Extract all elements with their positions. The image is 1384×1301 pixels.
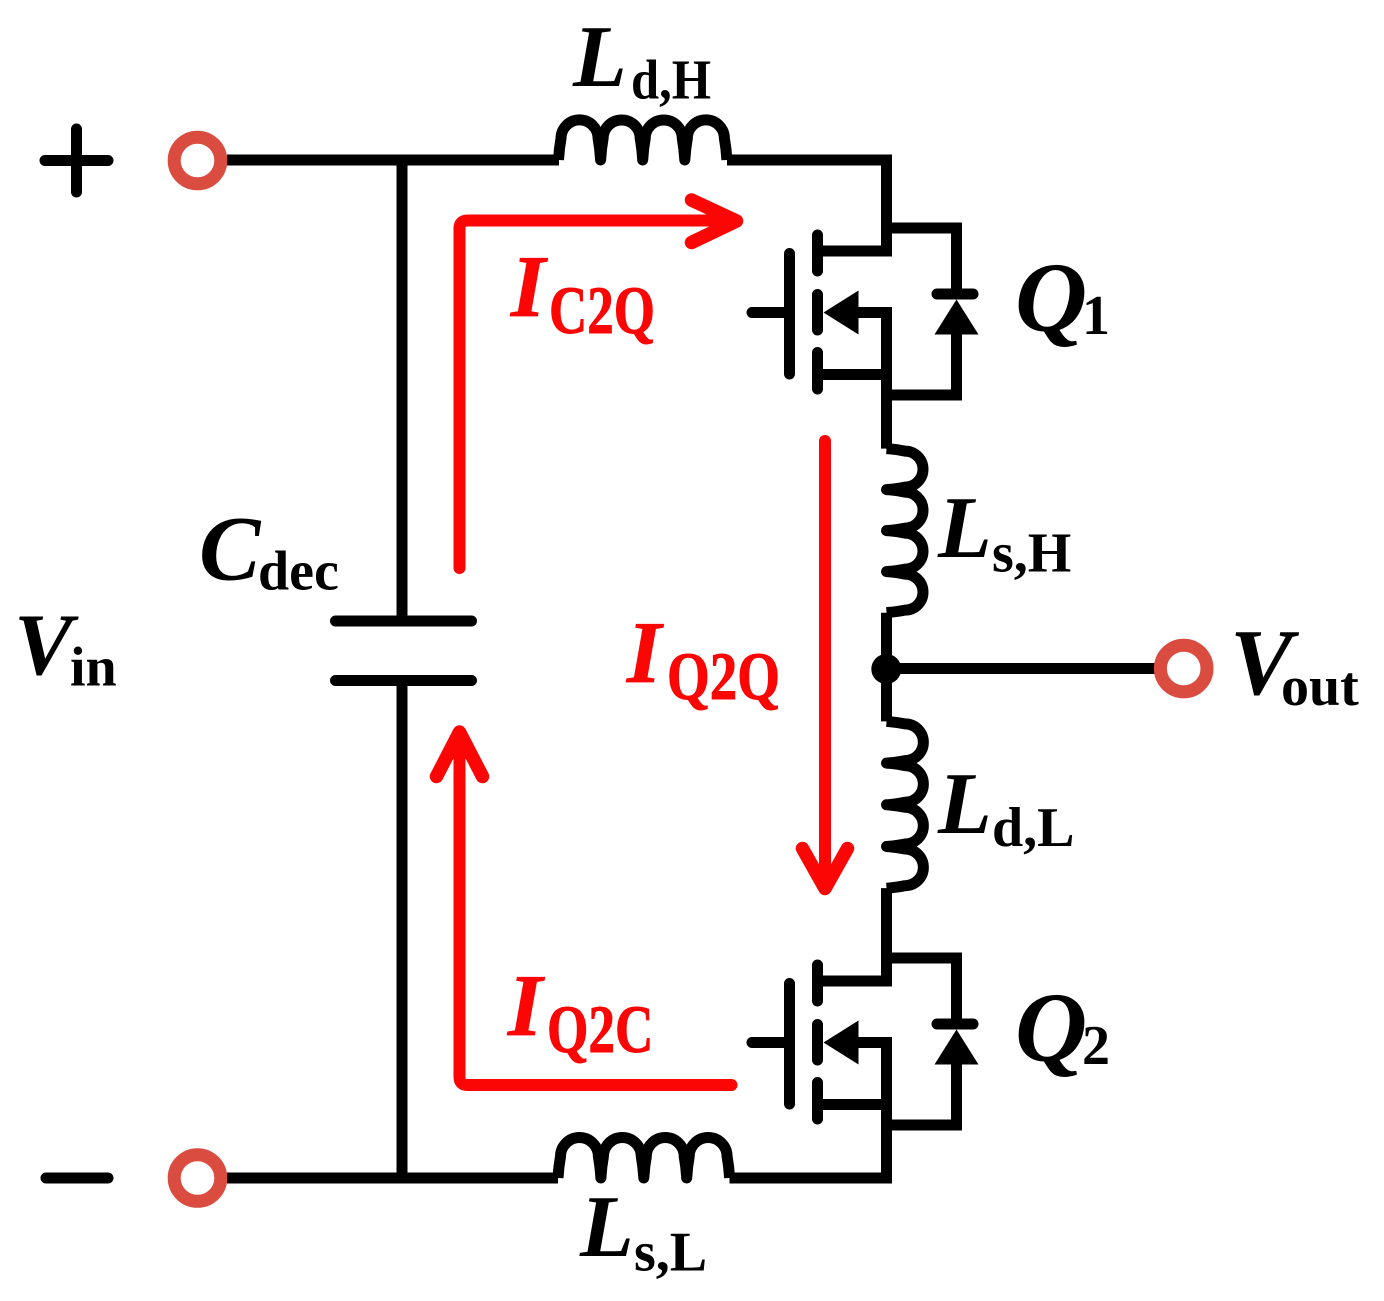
Q2 channel segments	[812, 965, 823, 1119]
input - terminal	[174, 1155, 221, 1202]
Q2 body arrow	[824, 1021, 859, 1065]
svg-text:s,L: s,L	[634, 1222, 707, 1284]
wire top: Ld,H to Q1 drain corner	[727, 160, 887, 251]
Q1 body line	[856, 307, 892, 318]
Q2 diode triangle	[935, 1030, 979, 1065]
minus sign of Vin	[46, 1173, 108, 1184]
Q1 gate bar	[784, 254, 795, 375]
inductor Ls,L	[558, 1138, 730, 1178]
Q2 gate lead	[752, 1037, 790, 1048]
capacitor Cdec plates	[336, 621, 472, 681]
wire top: + terminal to Ld,H	[227, 155, 559, 166]
transistor Q1	[752, 228, 979, 449]
Q2 body line	[856, 1037, 892, 1048]
output terminal	[1160, 645, 1207, 692]
Q1 source connection	[818, 369, 887, 380]
Q1 body diode branch	[887, 228, 957, 395]
svg-text:I: I	[626, 605, 664, 702]
current path IQ2C	[460, 737, 732, 1085]
svg-text:2: 2	[1082, 1015, 1110, 1077]
transistor Q2	[752, 958, 979, 1125]
Q2 diode cathode bar	[937, 1019, 973, 1030]
current path IC2Q	[460, 221, 731, 569]
plus sign of Vin	[45, 129, 108, 192]
Q1 body arrow	[824, 291, 859, 335]
current arrow IQ2Q shaft	[819, 441, 831, 881]
svg-text:L: L	[937, 480, 992, 577]
svg-text:C: C	[199, 498, 262, 600]
svg-text:L: L	[572, 9, 627, 106]
Q2 gate bar	[784, 984, 795, 1105]
svg-text:d,H: d,H	[631, 50, 711, 112]
wire Ls,H to node to Ld,L	[881, 613, 892, 722]
Q1 channel segments	[812, 235, 823, 389]
svg-text:Q2Q: Q2Q	[667, 638, 780, 714]
svg-text:I: I	[507, 958, 545, 1055]
svg-text:Q: Q	[1015, 972, 1087, 1083]
svg-text:s,H: s,H	[992, 523, 1071, 585]
Q1 gate lead	[752, 307, 790, 318]
wire Ld,L to Q2 drain	[881, 888, 892, 981]
svg-text:in: in	[70, 637, 117, 699]
Q1 diode triangle	[935, 300, 979, 335]
inductor Ld,L	[887, 721, 924, 888]
wire Cdec branch bottom	[397, 675, 408, 1184]
wire bottom: Ls,L to Q2 source	[730, 1037, 893, 1184]
arrowhead IC2Q	[692, 200, 737, 243]
arrowhead IQ2Q	[803, 849, 848, 889]
Q1 drain connection	[818, 246, 893, 257]
svg-text:d,L: d,L	[992, 797, 1075, 859]
Q1 source vertical	[881, 307, 892, 449]
svg-text:I: I	[510, 239, 548, 336]
svg-text:Q: Q	[1015, 242, 1087, 353]
Q2 source connection	[818, 1099, 887, 1110]
wire bottom: - terminal to Ls,L	[227, 1173, 558, 1184]
Q2 body diode branch	[887, 958, 957, 1125]
wire Cdec branch top	[397, 155, 408, 627]
inductor Ls,H	[887, 449, 924, 613]
wire node to Vout	[887, 663, 1155, 674]
arrowhead IQ2C	[437, 732, 483, 777]
Q2 drain connection	[818, 976, 893, 987]
Q1 diode cathode bar	[937, 289, 973, 300]
svg-text:out: out	[1281, 656, 1359, 718]
svg-text:1: 1	[1082, 285, 1110, 347]
inductor Ld,H	[559, 120, 727, 160]
node A: switch-node junction dot	[871, 654, 901, 684]
svg-text:dec: dec	[258, 541, 339, 603]
svg-text:L: L	[579, 1179, 634, 1276]
svg-text:Q2C: Q2C	[547, 991, 654, 1067]
svg-text:C2Q: C2Q	[549, 272, 655, 348]
input + terminal	[174, 137, 221, 184]
svg-text:L: L	[937, 756, 992, 853]
